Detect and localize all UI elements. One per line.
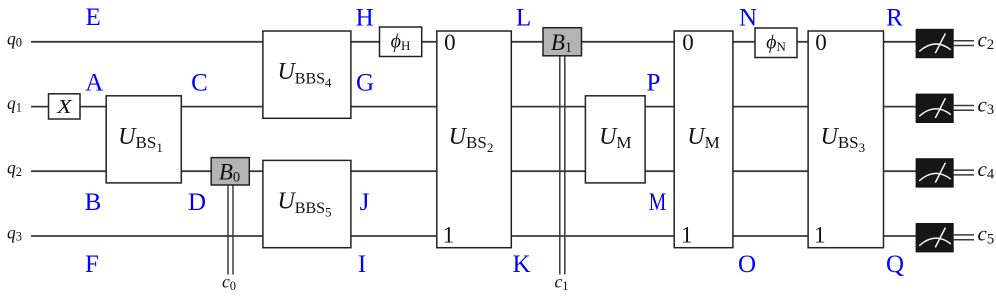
svg-text:I: I bbox=[358, 251, 366, 278]
svg-text:H: H bbox=[356, 4, 374, 31]
svg-text:0: 0 bbox=[682, 30, 694, 55]
gate U_M (second) bbox=[674, 30, 733, 248]
svg-text:1: 1 bbox=[814, 222, 826, 247]
node G bbox=[356, 69, 374, 96]
node M bbox=[649, 189, 667, 216]
svg-text:0: 0 bbox=[815, 30, 827, 55]
classical wire c0 (double line from B0) bbox=[228, 186, 233, 275]
svg-text:C: C bbox=[191, 69, 208, 96]
meter M1 (q1) bbox=[916, 94, 954, 123]
gate U_BS3 bbox=[808, 30, 883, 248]
svg-text:D: D bbox=[188, 189, 206, 216]
wire q2 bbox=[31, 170, 916, 172]
svg-text:R: R bbox=[886, 4, 903, 31]
measurement B1 bbox=[543, 28, 582, 56]
node E bbox=[86, 4, 101, 31]
classical wire c1 (double line from B1) bbox=[560, 56, 565, 275]
measurement B0 bbox=[211, 158, 249, 186]
node D bbox=[188, 189, 206, 216]
label q2 bbox=[7, 158, 22, 179]
svg-text:F: F bbox=[85, 251, 99, 278]
gate U_M (first) bbox=[585, 96, 645, 183]
node P bbox=[647, 69, 661, 96]
svg-text:Q: Q bbox=[886, 251, 904, 278]
label c3 bbox=[978, 92, 995, 118]
node J bbox=[360, 189, 370, 216]
node K bbox=[512, 251, 530, 278]
node C bbox=[191, 69, 208, 96]
node F bbox=[85, 251, 99, 278]
label c2 bbox=[978, 28, 995, 54]
svg-text:M: M bbox=[649, 189, 667, 216]
wire q0 bbox=[31, 41, 916, 43]
node H bbox=[356, 4, 374, 31]
classical double line to c3 bbox=[954, 106, 974, 111]
classical double line to c4 bbox=[954, 170, 974, 175]
svg-text:K: K bbox=[512, 251, 530, 278]
wire q3 bbox=[31, 235, 916, 237]
svg-text:N: N bbox=[739, 4, 757, 31]
node Q bbox=[886, 251, 904, 278]
node A bbox=[85, 69, 103, 96]
svg-text:A: A bbox=[85, 69, 103, 96]
node B bbox=[85, 189, 102, 216]
node O bbox=[738, 251, 756, 278]
svg-text:1: 1 bbox=[443, 222, 455, 247]
meter M3 (q3) bbox=[916, 223, 954, 252]
meter M2 (q2) bbox=[916, 158, 954, 187]
gate phi_H bbox=[380, 27, 422, 57]
classical double line to c5 bbox=[954, 235, 974, 240]
label q3 bbox=[7, 223, 22, 244]
svg-text:E: E bbox=[86, 4, 101, 31]
label c0 bbox=[222, 272, 236, 294]
svg-text:B: B bbox=[85, 189, 102, 216]
svg-text:0: 0 bbox=[444, 30, 456, 55]
gate X bbox=[49, 94, 81, 119]
svg-text:P: P bbox=[647, 69, 661, 96]
label c1 bbox=[555, 272, 569, 294]
svg-text:O: O bbox=[738, 251, 756, 278]
gate U_BBS5 bbox=[263, 160, 351, 247]
label c5 bbox=[978, 222, 995, 248]
label c4 bbox=[978, 157, 995, 183]
node L bbox=[516, 4, 531, 31]
meter M0 (q0) bbox=[916, 29, 954, 58]
wire q1 bbox=[31, 106, 916, 108]
label q1 bbox=[7, 93, 22, 114]
gate U_BS1 bbox=[106, 96, 181, 183]
gate phi_N bbox=[755, 28, 797, 58]
node R bbox=[886, 4, 903, 31]
svg-text:X: X bbox=[56, 96, 73, 118]
svg-text:G: G bbox=[356, 69, 374, 96]
node N bbox=[739, 4, 757, 31]
classical double line to c2 bbox=[954, 41, 974, 46]
svg-text:J: J bbox=[360, 189, 370, 216]
node I bbox=[358, 251, 366, 278]
gate U_BBS4 bbox=[263, 31, 351, 118]
svg-text:1: 1 bbox=[681, 222, 693, 247]
gate U_BS2 bbox=[437, 30, 512, 248]
svg-text:L: L bbox=[516, 4, 531, 31]
label q0 bbox=[7, 28, 22, 49]
